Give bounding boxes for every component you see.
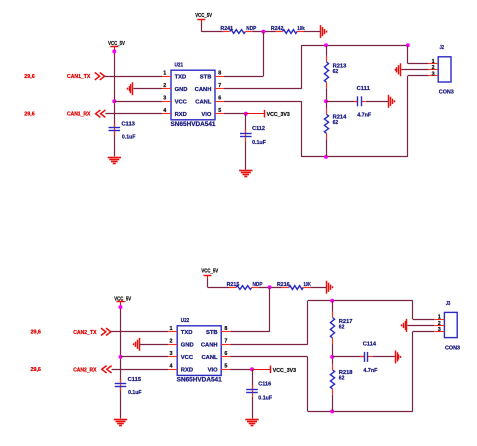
svg-text:CANL: CANL	[195, 99, 212, 105]
svg-text:GND: GND	[181, 343, 194, 349]
op-amp-style IC U22 SN65HVDA541 CAN transceiver	[177, 318, 223, 384]
svg-text:RXD: RXD	[175, 112, 187, 118]
wire VCC_5V to R241	[201, 23, 223, 32]
wire VCC_5V rail vertical	[120, 305, 122, 419]
svg-text:CANH: CANH	[201, 343, 218, 349]
svg-text:U21: U21	[175, 62, 184, 68]
svg-text:CAN1_TX: CAN1_TX	[67, 74, 91, 80]
svg-text:CAN1_RX: CAN1_RX	[67, 112, 91, 118]
capacitor C114 4.7nF	[360, 342, 378, 375]
wire CAN1_TX to pin1	[105, 76, 162, 78]
wire divider mid to C114	[332, 356, 364, 358]
svg-text:4.7nF: 4.7nF	[357, 113, 371, 119]
wire ground to pin2	[134, 88, 163, 90]
ground below C113	[108, 158, 121, 164]
pin stubs U22 right pins 8-5	[221, 332, 230, 370]
svg-text:0.1uF: 0.1uF	[128, 390, 142, 396]
svg-text:CAN2_RX: CAN2_RX	[73, 367, 97, 373]
svg-text:62: 62	[333, 69, 339, 75]
svg-text:29,6: 29,6	[31, 330, 41, 336]
svg-text:3: 3	[163, 96, 166, 102]
power VCC_5V (left rail, net VCC_5V)	[108, 41, 125, 50]
svg-text:TXD: TXD	[181, 330, 193, 336]
svg-text:3: 3	[438, 327, 441, 333]
pin stubs U22 left pins 1-4	[168, 332, 177, 370]
pin numbers J3	[438, 315, 441, 333]
svg-text:0.1uF: 0.1uF	[122, 135, 136, 141]
svg-text:VCC: VCC	[175, 99, 188, 105]
wire CANL pin6 to bus	[230, 357, 413, 412]
wire C116 to ground	[252, 397, 254, 419]
svg-text:4: 4	[170, 364, 173, 370]
resistor R218 value 62	[330, 364, 352, 412]
svg-text:J2: J2	[440, 45, 445, 51]
svg-text:CANH: CANH	[195, 87, 212, 93]
wire C111 to ground	[366, 101, 389, 103]
svg-text:SN65HVDA541: SN65HVDA541	[171, 121, 217, 128]
junction STB tap	[261, 30, 265, 34]
junction CANL at divider bottom	[324, 155, 328, 159]
wire CAN1_RX to pin4	[105, 113, 162, 115]
svg-text:RXD: RXD	[181, 368, 193, 374]
svg-text:5: 5	[224, 364, 227, 370]
ground below C112	[239, 171, 252, 177]
pin stubs U21 right pins 8-5	[215, 77, 224, 114]
power VCC_3V3 flag	[252, 366, 296, 374]
svg-text:VCC_5V: VCC_5V	[201, 269, 218, 275]
junction on VCC_5V rail below power symbol	[112, 50, 116, 54]
svg-text:7: 7	[224, 339, 227, 345]
wire CAN2_TX to pin1	[111, 331, 168, 333]
svg-text:U22: U22	[181, 318, 190, 324]
wire VCC rail to pin3	[114, 101, 162, 103]
node CAN2_RX (sheet ref 29,6)	[31, 367, 97, 373]
svg-text:TXD: TXD	[175, 74, 187, 80]
pin numbers U21	[163, 71, 221, 115]
pin stubs J2 pins 1-3	[428, 64, 438, 76]
svg-text:SN65HVDA541: SN65HVDA541	[177, 376, 223, 383]
junction VCC_5V rail to pin3 wire	[119, 355, 123, 359]
svg-text:1: 1	[163, 71, 166, 77]
ground right of C114	[396, 350, 401, 363]
port chevron CAN1_RX	[96, 110, 106, 117]
wire CANL bus up to connector pin3	[408, 76, 429, 157]
ground at end of top rail	[321, 25, 327, 38]
svg-text:4.7nF: 4.7nF	[363, 368, 377, 374]
wire CANL pin6 to bus	[224, 101, 408, 157]
wire divider middle	[326, 88, 328, 108]
wire R216 to ground	[310, 287, 326, 289]
svg-text:1: 1	[432, 59, 435, 65]
wire CAN2_RX to pin4	[112, 369, 169, 371]
svg-text:4: 4	[163, 108, 166, 114]
svg-text:62: 62	[339, 376, 345, 382]
wire divider middle	[332, 344, 334, 364]
wire VIO pin5	[224, 113, 246, 115]
junction VIO tap	[244, 112, 248, 116]
wire STB pin8 to divider tap	[230, 287, 269, 332]
wire VIO tap down to C116	[252, 369, 254, 389]
resistor R242 value 10k	[271, 26, 306, 33]
wire ground to pin2	[140, 344, 169, 346]
svg-text:J3: J3	[446, 301, 451, 307]
pin numbers U22	[170, 326, 228, 370]
svg-text:2: 2	[163, 83, 166, 89]
svg-text:2: 2	[170, 339, 173, 345]
capacitor C115 0.1uF	[115, 377, 142, 396]
svg-text:C115: C115	[128, 377, 142, 383]
svg-text:R241: R241	[220, 26, 233, 32]
svg-text:29,6: 29,6	[24, 112, 34, 118]
svg-text:VIO: VIO	[201, 112, 211, 118]
resistor R241 value NDP	[220, 26, 256, 33]
ground at U21 pin 2	[128, 82, 133, 95]
connector J3 CON3	[444, 301, 460, 352]
svg-text:6: 6	[218, 96, 221, 102]
power VCC_5V (top rail)	[195, 13, 212, 23]
resistor R214 value 62	[324, 108, 347, 157]
wire VCC_5V to R215	[208, 279, 230, 288]
svg-text:5: 5	[218, 108, 221, 114]
svg-text:C114: C114	[363, 342, 377, 348]
resistor R217 value 62	[330, 301, 352, 344]
wire CANH pin7 to bus	[230, 301, 413, 345]
pin stubs U21 left pins 1-4	[162, 77, 171, 114]
svg-text:STB: STB	[200, 74, 212, 80]
svg-text:C116: C116	[258, 382, 271, 388]
svg-text:0.1uF: 0.1uF	[252, 140, 266, 146]
power VCC_5V (top rail)	[201, 269, 218, 279]
resistor R215 value NDP	[227, 282, 263, 290]
wire VCC rail to pin3	[121, 356, 169, 358]
svg-text:3: 3	[432, 71, 435, 77]
ground at connector pin2	[402, 319, 407, 332]
ground below C116	[245, 420, 258, 426]
svg-text:0.1uF: 0.1uF	[258, 396, 272, 402]
junction CANH at connector corner	[406, 43, 410, 47]
svg-text:VCC: VCC	[181, 355, 194, 361]
svg-text:8: 8	[218, 71, 221, 77]
wire CANH bus down to connector pin1	[413, 301, 435, 320]
svg-text:R215: R215	[227, 282, 240, 288]
junction on VCC_5V rail below power symbol	[119, 305, 123, 309]
ground right of C111	[389, 95, 395, 108]
svg-text:1: 1	[438, 315, 441, 321]
svg-text:7: 7	[218, 83, 221, 89]
wire C112 to ground	[245, 141, 247, 169]
svg-text:62: 62	[339, 325, 345, 331]
svg-text:VCC_3V3: VCC_3V3	[267, 112, 290, 118]
wire VIO tap down to C112	[245, 114, 247, 134]
svg-text:CON3: CON3	[439, 90, 454, 96]
svg-text:GND: GND	[175, 87, 188, 93]
pin numbers J2	[432, 59, 435, 77]
capacitor C111 4.7nF	[354, 86, 372, 119]
wire STB pin8 to divider tap	[224, 32, 264, 77]
op-amp-style IC U21 SN65HVDA541 CAN transceiver	[171, 62, 217, 128]
svg-text:C113: C113	[121, 121, 135, 127]
power VCC_3V3 flag	[246, 110, 290, 118]
capacitor C116 0.1uF	[246, 382, 272, 402]
svg-text:CANL: CANL	[201, 355, 218, 361]
svg-text:C111: C111	[357, 86, 370, 92]
svg-text:2: 2	[438, 321, 441, 327]
junction CANH at divider top	[324, 43, 328, 47]
svg-text:STB: STB	[206, 330, 218, 336]
svg-text:R216: R216	[277, 282, 290, 288]
node CAN1_RX (sheet ref 29,6)	[24, 112, 90, 118]
svg-text:CON3: CON3	[445, 345, 460, 351]
wire C114 to ground	[372, 356, 395, 358]
svg-text:VCC_3V3: VCC_3V3	[273, 368, 296, 374]
connector J2 CON3	[438, 45, 454, 95]
svg-text:R242: R242	[271, 26, 284, 32]
wire ground to connector pin2	[407, 325, 434, 327]
svg-text:2: 2	[432, 65, 435, 71]
node CAN1_TX (sheet ref 29,6)	[24, 74, 90, 80]
ground at U22 pin 2	[134, 338, 140, 351]
junction divider midpoint	[324, 99, 328, 103]
svg-text:8: 8	[224, 326, 227, 332]
port chevron CAN1_TX	[95, 73, 105, 80]
wire ground to connector pin2	[401, 69, 428, 71]
power VCC_5V (left rail, net VCC_5V)	[114, 296, 131, 305]
svg-text:CAN2_TX: CAN2_TX	[73, 330, 97, 336]
wire CANL bus up to connector pin3	[413, 331, 435, 411]
port chevron CAN2_TX	[101, 328, 111, 335]
svg-text:VCC_5V: VCC_5V	[195, 13, 212, 19]
resistor R213 value 62	[324, 45, 346, 88]
wire VIO pin5	[230, 369, 252, 371]
junction CANL at divider bottom	[330, 409, 334, 413]
svg-text:1: 1	[170, 326, 173, 332]
svg-text:29,6: 29,6	[24, 74, 34, 80]
svg-text:6: 6	[224, 351, 227, 357]
ground below C115	[114, 420, 127, 426]
junction divider midpoint	[330, 355, 334, 359]
svg-text:VIO: VIO	[208, 368, 218, 374]
pin stubs J3 pins 1-3	[434, 320, 444, 332]
svg-text:29,6: 29,6	[31, 367, 41, 373]
wire divider mid to C111	[326, 101, 358, 103]
wire CANH pin7 to bus	[224, 45, 408, 88]
wire R215 to R216	[259, 287, 282, 289]
resistor R216 value 10K	[277, 282, 312, 290]
ground at end of top rail	[327, 281, 333, 294]
svg-text:C112: C112	[252, 126, 265, 132]
wire VCC_5V rail vertical	[114, 49, 116, 156]
junction VCC_5V rail to pin3 wire	[112, 99, 116, 103]
ground at connector pin2	[396, 63, 401, 76]
junction CANH at divider top	[330, 299, 334, 303]
junction STB tap	[268, 285, 272, 289]
wire R241 to R242	[252, 31, 275, 33]
port chevron CAN2_RX	[102, 366, 112, 373]
node CAN2_TX (sheet ref 29,6)	[31, 330, 97, 336]
capacitor C112 0.1uF	[240, 126, 266, 146]
svg-text:3: 3	[170, 351, 173, 357]
junction VIO tap	[250, 367, 254, 371]
svg-text:62: 62	[333, 120, 339, 126]
capacitor C113 0.1uF	[109, 121, 136, 140]
wire CANH bus down to connector pin1	[408, 45, 429, 63]
wire R242 to ground	[304, 31, 320, 33]
